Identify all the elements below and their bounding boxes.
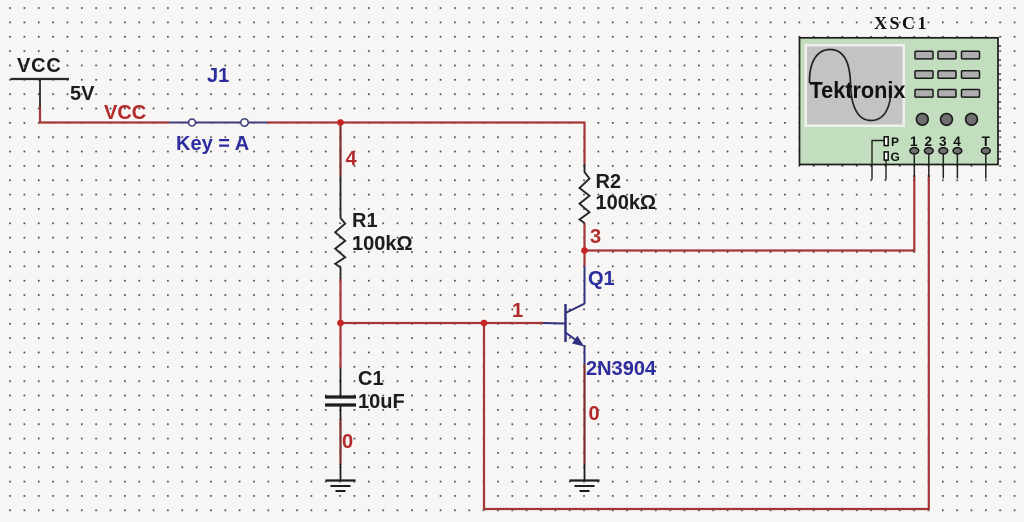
svg-text:R1: R1 <box>352 210 378 232</box>
svg-text:XSC1: XSC1 <box>874 13 929 33</box>
svg-text:Key = A: Key = A <box>176 133 249 155</box>
svg-text:1: 1 <box>512 300 523 322</box>
svg-text:3: 3 <box>590 226 601 248</box>
svg-text:0: 0 <box>589 403 600 425</box>
svg-text:4: 4 <box>346 148 358 170</box>
svg-text:2N3904: 2N3904 <box>586 358 657 380</box>
svg-text:J1: J1 <box>207 65 229 87</box>
svg-text:100kΩ: 100kΩ <box>352 233 413 255</box>
svg-text:100kΩ: 100kΩ <box>596 192 657 214</box>
svg-text:C1: C1 <box>358 368 384 390</box>
svg-text:10uF: 10uF <box>358 391 405 413</box>
svg-text:2: 2 <box>925 134 933 149</box>
svg-text:G: G <box>891 150 900 164</box>
svg-text:VCC: VCC <box>104 102 146 124</box>
svg-text:Tektronix: Tektronix <box>810 77 906 103</box>
svg-text:R2: R2 <box>596 171 622 193</box>
svg-text:P: P <box>891 135 899 149</box>
svg-text:1: 1 <box>910 134 918 149</box>
svg-text:4: 4 <box>953 134 961 149</box>
svg-text:T: T <box>982 134 991 149</box>
svg-text:5V: 5V <box>70 83 95 105</box>
svg-text:3: 3 <box>939 134 947 149</box>
svg-text:Q1: Q1 <box>588 268 615 290</box>
svg-text:VCC: VCC <box>17 55 62 77</box>
svg-text:0: 0 <box>342 431 353 453</box>
